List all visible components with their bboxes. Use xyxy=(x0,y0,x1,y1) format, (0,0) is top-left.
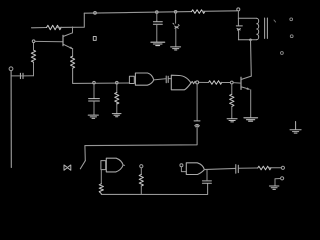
capacitor C7 xyxy=(202,181,211,183)
wire C6 to U1b xyxy=(169,78,172,80)
capacitor C8 series xyxy=(236,165,239,174)
ground R5 xyxy=(227,119,237,122)
secondary winding tick xyxy=(274,20,276,22)
node junction C3 xyxy=(174,11,177,14)
resistor R7 xyxy=(115,93,119,105)
wire U2a input down xyxy=(100,170,102,184)
wire top supply rail xyxy=(84,12,191,14)
transistor Q1 xyxy=(62,35,64,45)
label D box xyxy=(93,37,96,41)
wire U1a output xyxy=(154,79,166,80)
capacitor C2 xyxy=(153,13,162,41)
resistor R6 emitter xyxy=(71,56,75,68)
wire gate2 node to R4 xyxy=(199,81,209,83)
gate U1a input box xyxy=(129,76,134,83)
capacitor C9 electrolytic xyxy=(194,121,200,127)
node gate2 output xyxy=(196,81,199,84)
resistor R10 xyxy=(258,166,271,170)
capacitor C3 electrolytic xyxy=(173,13,179,47)
ground under C3 xyxy=(171,47,181,50)
switch contact symbol xyxy=(64,165,71,170)
node bypass cap xyxy=(93,81,96,84)
wire Q1 collector riser xyxy=(72,27,74,33)
wire base Q2 xyxy=(233,82,240,85)
wire R9 to rail xyxy=(140,186,142,194)
wire R5 to ground xyxy=(231,107,233,119)
wire C8 to R10 xyxy=(239,167,258,169)
wire output gnd lead xyxy=(275,179,281,186)
resistor R2 on rail xyxy=(192,10,205,14)
capacitor C4 in tank xyxy=(236,26,242,30)
node shunt resistor xyxy=(116,81,119,84)
ground output jack xyxy=(269,186,279,189)
capacitor C5 xyxy=(89,99,100,101)
terminal circle out2 xyxy=(290,35,293,38)
terminal circle jack A xyxy=(140,165,143,168)
wire node to R7 xyxy=(116,84,118,93)
transformer core xyxy=(265,18,268,38)
wire Q1 emitter down xyxy=(72,49,74,57)
terminal circle out1 xyxy=(290,18,293,21)
ground Q2 emitter xyxy=(244,118,258,121)
wire collector Q2 riser xyxy=(250,40,253,76)
wire C9 to feedback run xyxy=(85,126,197,161)
ground R7 xyxy=(112,114,121,117)
ground under C2 xyxy=(151,42,165,45)
gate U1b body xyxy=(171,75,191,90)
wire C1 to bias node xyxy=(24,75,34,77)
wire U2b output xyxy=(204,168,235,169)
wire emitter run xyxy=(73,68,130,83)
node on rail xyxy=(94,12,97,15)
wire Q1 base xyxy=(35,40,62,42)
terminal circle output hot xyxy=(281,166,284,169)
input terminal J1 xyxy=(9,67,13,71)
wire R4 to Q2 base node xyxy=(221,82,231,84)
wire node down to C9 xyxy=(196,84,198,121)
node Q1 base circle xyxy=(32,40,35,43)
gate U2a input box xyxy=(101,161,106,170)
wire collector supply stub xyxy=(32,27,47,29)
wire C7 to output run xyxy=(206,169,208,180)
gate U2a body xyxy=(106,158,123,172)
node Q2 base xyxy=(230,81,233,84)
resistor R1 xyxy=(47,25,62,29)
switch lever tail xyxy=(80,161,85,169)
node junction C2 xyxy=(156,11,159,14)
node tank top xyxy=(237,8,240,11)
wire jack A to R9 xyxy=(140,168,142,175)
resistor R5 xyxy=(230,94,234,106)
wire Q2 emitter to ground xyxy=(250,90,252,117)
terminal circle output gnd xyxy=(281,177,284,180)
resistor R9 xyxy=(139,175,143,186)
junction dot collector tap xyxy=(249,39,252,42)
capacitor C6 interstage xyxy=(166,76,168,83)
inductor L1 coil xyxy=(257,18,259,39)
wire R1 to rail corner xyxy=(58,13,85,27)
gate U1a body xyxy=(135,73,153,85)
terminal circle jack B xyxy=(180,164,183,167)
wire R3 to base node xyxy=(33,43,35,51)
terminal circle out3 xyxy=(281,52,284,55)
capacitor C1 input xyxy=(20,73,23,78)
wire node to C5 xyxy=(93,84,95,98)
tank circuit frame T1 primary xyxy=(238,18,256,40)
wire bias vertical xyxy=(33,62,35,76)
wire input tee xyxy=(11,75,19,77)
ground C5 xyxy=(88,115,98,118)
wire node to R5 xyxy=(231,84,233,94)
resistor R3 xyxy=(31,50,35,62)
wire input down long xyxy=(10,71,12,168)
ground floating right xyxy=(290,122,301,134)
wire R7 to ground xyxy=(116,103,118,114)
Q1 emitter arrowhead xyxy=(70,46,73,49)
wire R10 to output terminal xyxy=(269,167,281,169)
wire C5 to ground xyxy=(93,101,95,114)
wire tank stem xyxy=(237,11,239,18)
wire bottom rail xyxy=(101,184,207,195)
wire rail right segment xyxy=(203,10,237,13)
resistor R8 xyxy=(99,184,103,194)
Q2 emitter arrowhead xyxy=(247,87,250,89)
U2a output tick xyxy=(123,164,125,166)
resistor R4 xyxy=(209,81,222,85)
gate U2b body xyxy=(186,163,204,175)
U1b output squiggle xyxy=(191,81,196,83)
wire jack B to U2b input xyxy=(181,167,186,172)
transistor Q2 xyxy=(240,77,242,89)
